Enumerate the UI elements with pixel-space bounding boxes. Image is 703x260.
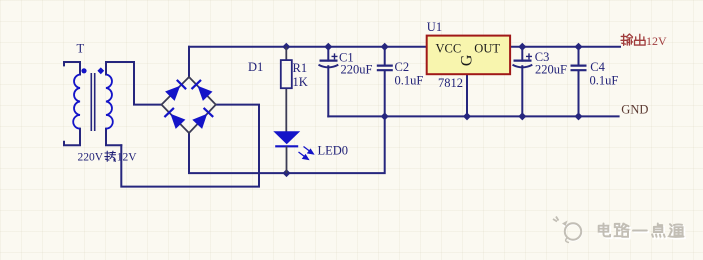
LED0 cathode bar	[275, 145, 298, 147]
junction C4/output rail	[575, 43, 583, 51]
svg-text:7812: 7812	[438, 76, 463, 90]
bridge rectifier D1 diamond	[162, 77, 216, 133]
junction LED/net A	[283, 169, 291, 177]
C3 plus sign	[526, 53, 532, 59]
capacitor C3 plates	[514, 59, 532, 61]
wire: C3 top connection	[521, 47, 523, 61]
svg-text:220uF: 220uF	[341, 63, 373, 77]
svg-text:OUT: OUT	[474, 41, 500, 55]
wire: bottom rail C1 to GND end	[328, 115, 618, 117]
wire: C3 bottom connection	[521, 66, 523, 116]
transformer polarity dot secondary	[97, 67, 104, 74]
wire: transformer secondary bottom lead	[106, 129, 121, 146]
bridge diode bottom-right	[192, 114, 207, 129]
wire: C4 bottom connection	[578, 71, 580, 117]
svg-text:C2: C2	[395, 60, 410, 74]
svg-text:C4: C4	[590, 60, 605, 74]
resistor R1 body	[281, 60, 292, 88]
svg-text:220V: 220V	[78, 152, 104, 164]
capacitor C1 plates	[320, 59, 338, 61]
C1 plus sign	[332, 53, 338, 59]
wire: transformer primary bottom lead	[64, 129, 80, 146]
transformer T winding secondary	[106, 75, 113, 129]
transformer polarity dot primary	[81, 68, 86, 73]
net label 输出12V	[621, 34, 633, 45]
junction U1 GND/bottom rail	[463, 112, 471, 120]
op U1 7812 body	[427, 36, 510, 75]
junction C3/output rail	[518, 43, 526, 51]
wire: top rail from bridge to U1 VCC pin	[189, 46, 427, 48]
wire: C2 bottom connection	[384, 71, 386, 117]
bridge diode top-left	[165, 86, 180, 101]
LED0 triangle	[273, 131, 300, 144]
wire: bridge bottom vertex down and net A to riser	[189, 116, 385, 173]
LED0 bottom pin	[286, 146, 288, 173]
wire: secondary bottom down and along net B to bridge right vertex	[121, 105, 259, 187]
junction R1/top rail	[282, 43, 290, 51]
svg-text:GND: GND	[621, 103, 648, 117]
bridge diode bottom-left	[170, 114, 185, 129]
resistor R1 pins	[285, 47, 287, 132]
svg-text:LED0: LED0	[318, 144, 349, 158]
wire: U1 GND pin to bottom rail	[466, 74, 468, 116]
watermark logo	[562, 222, 581, 240]
svg-text:1K: 1K	[293, 75, 308, 89]
svg-text:R1: R1	[293, 61, 308, 75]
svg-text:U1: U1	[427, 20, 442, 34]
wire: U1 OUT pin to output rail end	[510, 46, 620, 48]
wire: bridge top vertex to top rail	[188, 47, 190, 78]
svg-text:220uF: 220uF	[535, 63, 567, 77]
junction C2/top rail	[381, 43, 389, 51]
wire: C1 top connection	[327, 47, 329, 61]
svg-text:VCC: VCC	[436, 41, 462, 55]
transformer core lines	[91, 73, 94, 131]
capacitor C2 plates	[377, 66, 393, 71]
junction C1/top rail	[324, 43, 332, 51]
junction C3/bottom rail	[518, 112, 526, 120]
junction C2/bottom rail	[381, 112, 389, 120]
wire: transformer secondary top lead to bridge left vertex	[106, 62, 162, 105]
capacitor C4 plates	[571, 66, 587, 71]
svg-text:D1: D1	[248, 60, 263, 74]
watermark text 电路一点通	[600, 225, 611, 238]
wire: C4 top connection	[578, 47, 580, 65]
wire: C2 top connection	[384, 47, 386, 65]
transformer T winding primary	[73, 75, 80, 129]
junction C4/bottom rail	[575, 112, 583, 120]
svg-text:T: T	[77, 42, 85, 56]
wire: transformer primary top lead	[64, 62, 80, 75]
svg-text:0.1uF: 0.1uF	[395, 74, 424, 88]
LED0 emission arrows	[299, 147, 314, 160]
svg-text:0.1uF: 0.1uF	[590, 74, 619, 88]
svg-text:12V: 12V	[646, 34, 667, 48]
bridge diode top-right	[198, 86, 213, 101]
wire: C1 bottom connection	[327, 66, 329, 116]
svg-text:G: G	[459, 54, 476, 66]
svg-text:12V: 12V	[117, 152, 138, 164]
